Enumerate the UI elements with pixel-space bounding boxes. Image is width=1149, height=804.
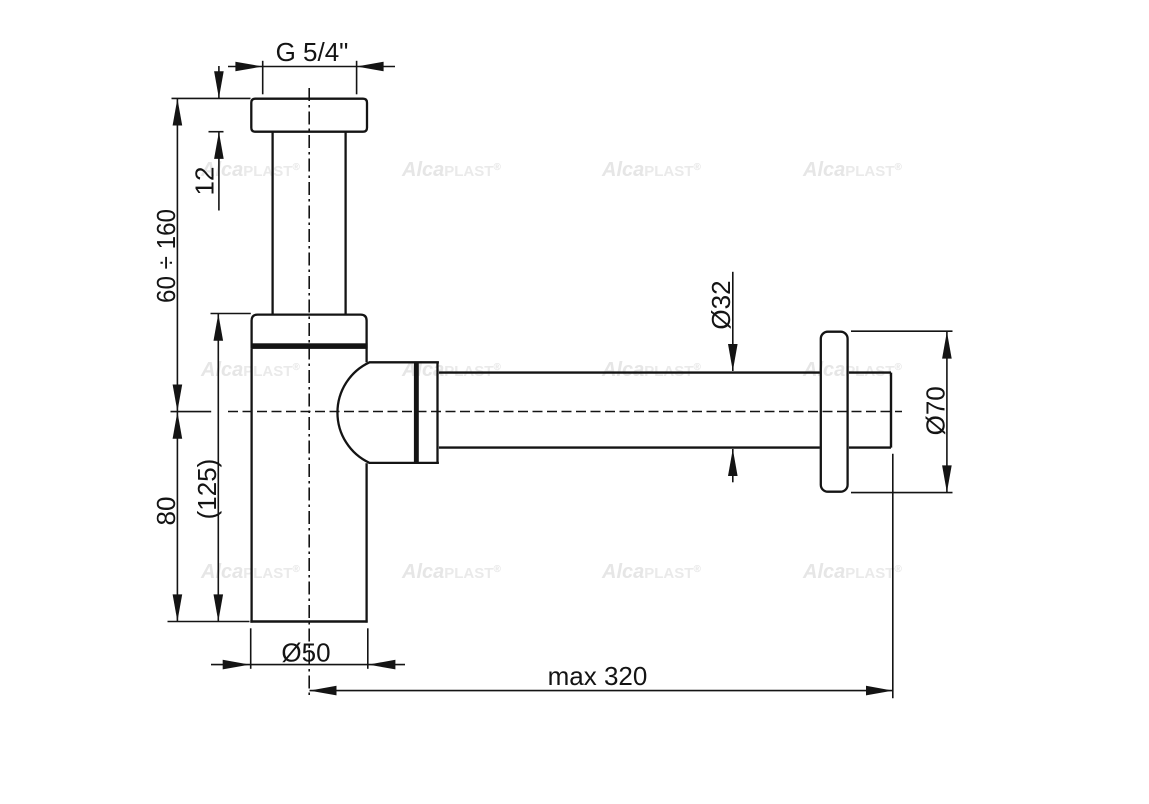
svg-text:AlcaPLAST®: AlcaPLAST®	[200, 359, 300, 381]
svg-text:AlcaPLAST®: AlcaPLAST®	[601, 359, 701, 381]
svg-text:Ø32: Ø32	[706, 280, 736, 329]
arrow O70 bottom	[942, 465, 952, 492]
ext line below body left	[250, 628, 252, 669]
body bottom	[250, 620, 367, 623]
svg-text:Ø70: Ø70	[920, 386, 950, 435]
dim O32 lower line	[732, 449, 734, 482]
riser pipe right wall	[344, 132, 346, 315]
arrow max320 right	[866, 686, 893, 696]
dim O32 upper line	[732, 272, 734, 371]
ext line body bottom left	[168, 621, 250, 623]
svg-text:AlcaPLAST®: AlcaPLAST®	[601, 561, 701, 583]
arrow max320 left	[310, 686, 337, 696]
arrow G5/4 left	[235, 62, 262, 72]
nut right edge	[436, 362, 438, 463]
svg-text:Ø50: Ø50	[281, 638, 330, 668]
ext line rosette top	[851, 330, 953, 332]
top flange (cap nut)	[251, 99, 367, 132]
elbow nut outline with spherical nose	[337, 362, 438, 463]
watermark row 1	[200, 159, 902, 181]
dim O50 line	[211, 664, 405, 666]
ext tick at outlet axis	[171, 411, 212, 413]
svg-text:60 ÷ 160: 60 ÷ 160	[151, 209, 181, 303]
svg-text:AlcaPLAST®: AlcaPLAST®	[200, 561, 300, 583]
ext line pipe end	[892, 454, 894, 699]
watermark row 2	[200, 359, 902, 381]
body right wall upper	[365, 348, 367, 362]
svg-text:AlcaPLAST®: AlcaPLAST®	[802, 561, 902, 583]
outlet pipe bottom (right of rosette)	[849, 446, 891, 448]
wall rosette	[821, 332, 848, 492]
vertical centerline (dash-dot)	[308, 88, 310, 699]
svg-text:AlcaPLAST®: AlcaPLAST®	[401, 159, 501, 181]
arrow 12 top	[214, 71, 224, 98]
dim column 60-160 / 80	[176, 99, 178, 622]
dim O70 line	[946, 332, 948, 493]
arrow 12 bottom	[214, 132, 224, 159]
svg-text:80: 80	[151, 497, 181, 526]
ext line below body right	[367, 628, 369, 669]
outlet pipe end cap	[890, 373, 892, 448]
arrow (125) bottom	[214, 594, 224, 621]
ext line rosette bottom	[851, 492, 953, 494]
arrow 60-160 bottom	[173, 385, 183, 412]
svg-text:12: 12	[190, 167, 220, 196]
outlet pipe bottom (left of rosette)	[439, 446, 820, 448]
G5/4 ext line right	[356, 61, 358, 95]
arrow 60-160 top	[173, 99, 183, 126]
arrow O32 top	[728, 344, 738, 371]
ext line flange top	[172, 97, 251, 99]
riser pipe left wall	[271, 132, 273, 315]
dim 12 lower line	[218, 132, 220, 211]
svg-text:max 320: max 320	[548, 661, 648, 691]
G5/4 dim line	[228, 66, 395, 68]
svg-text:AlcaPLAST®: AlcaPLAST®	[802, 359, 902, 381]
arrow O50 right	[368, 660, 395, 670]
arrow 80 bottom	[173, 594, 183, 621]
dim max320 line	[310, 690, 894, 692]
dim (125) line	[217, 314, 219, 622]
body right wall lower	[365, 463, 367, 622]
arrow (125) top	[214, 314, 224, 341]
upper flange gasket band (thick)	[251, 343, 367, 349]
ext tick flange bottom	[209, 131, 224, 133]
outlet pipe top (left of rosette)	[439, 371, 820, 373]
arrow O70 top	[942, 332, 952, 359]
horizontal centerline (dashed)	[228, 411, 902, 413]
outlet pipe top (right of rosette)	[849, 371, 891, 373]
nut joint band (thick)	[414, 362, 419, 463]
G5/4 ext line left	[262, 61, 264, 95]
svg-text:AlcaPLAST®: AlcaPLAST®	[802, 159, 902, 181]
svg-text:G 5/4": G 5/4"	[276, 37, 349, 67]
ext line body flange top	[211, 313, 251, 315]
svg-text:(125): (125)	[192, 459, 222, 520]
arrow O32 bottom	[728, 449, 738, 476]
svg-text:AlcaPLAST®: AlcaPLAST®	[401, 561, 501, 583]
watermark row 3	[200, 561, 902, 583]
arrow G5/4 right	[357, 62, 384, 72]
arrow 80 top	[173, 412, 183, 439]
svg-text:AlcaPLAST®: AlcaPLAST®	[601, 159, 701, 181]
body left wall	[250, 348, 252, 622]
upper body flange	[252, 315, 367, 349]
arrow O50 left	[223, 660, 250, 670]
dim 12 upper line	[218, 66, 220, 98]
